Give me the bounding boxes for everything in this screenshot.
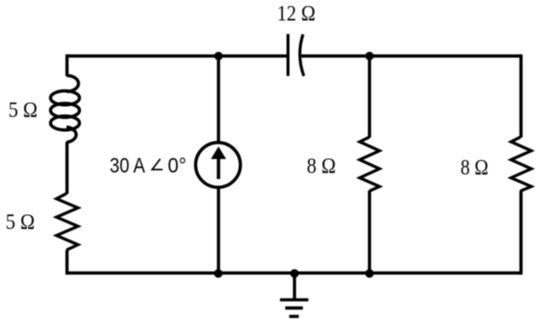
svg-text:30 A: 30 A: [110, 155, 146, 178]
svg-text:8 Ω: 8 Ω: [461, 155, 489, 180]
svg-text:5 Ω: 5 Ω: [8, 97, 37, 122]
svg-text:0°: 0°: [168, 155, 187, 178]
svg-text:8 Ω: 8 Ω: [307, 153, 336, 178]
svg-text:12 Ω: 12 Ω: [277, 1, 316, 26]
svg-text:5 Ω: 5 Ω: [6, 209, 35, 234]
